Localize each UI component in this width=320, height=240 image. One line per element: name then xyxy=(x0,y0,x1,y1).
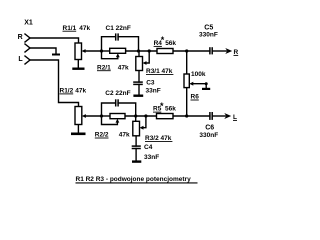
svg-text:R1/2: R1/2 xyxy=(60,87,74,94)
wire R1/2 bottom to ground xyxy=(77,125,79,133)
svg-text:R1 R2 R3 - podwojone potencjom: R1 R2 R3 - podwojone potencjometry xyxy=(76,176,192,183)
wiper arrow R1/1 xyxy=(82,49,86,53)
wire R3/2 top lead xyxy=(135,116,137,121)
capacitor C4 plates xyxy=(132,145,141,147)
junction node R5/R6/C6 xyxy=(185,114,188,117)
wire C5 to output arrow xyxy=(212,50,226,52)
potentiometer R1/2 body xyxy=(75,107,82,125)
wire R3/1 wiper return xyxy=(146,51,149,63)
wire C1 right branch xyxy=(118,37,138,51)
capacitor C3 plates xyxy=(133,81,143,83)
potentiometer R6 body xyxy=(184,74,189,88)
wire R6 top lead xyxy=(186,51,188,74)
junction node C2/R3/2 xyxy=(134,114,137,117)
wiper arrow R3/2 xyxy=(140,126,144,130)
potentiometer R2/1 body xyxy=(110,48,126,53)
wire R3/2 bottom to C4 xyxy=(135,136,137,146)
wire R2/1 right to R4 xyxy=(126,50,157,52)
wire L input to R1/2 top xyxy=(30,60,79,107)
wire C4 to ground xyxy=(135,149,137,161)
junction node R1/2 wiper xyxy=(100,114,103,117)
wire R3/1 bottom to C3 xyxy=(138,71,140,83)
svg-text:56k: 56k xyxy=(165,40,176,47)
capacitor C1 plates xyxy=(115,33,117,40)
svg-text:*: * xyxy=(161,35,165,45)
connector X1 pin R chevron xyxy=(25,34,30,42)
ground R1/2 xyxy=(71,133,86,136)
wire node to R2/1 left xyxy=(102,50,110,52)
wire R2/1 wiper return xyxy=(102,51,118,59)
wire R3/1 top lead xyxy=(138,51,140,57)
wire R4 to C5 xyxy=(173,50,210,52)
svg-text:L: L xyxy=(18,56,23,63)
svg-text:C1 22nF: C1 22nF xyxy=(106,25,131,32)
ground R1/1 xyxy=(72,68,84,70)
wiper arrow R2/2 xyxy=(116,119,120,123)
wire R2/2 right to R5 xyxy=(125,115,157,117)
junction node R3/2 wiper xyxy=(144,114,147,117)
junction node C1/R3/1 xyxy=(137,49,140,52)
svg-text:L: L xyxy=(233,114,237,121)
wiper arrow R2/1 xyxy=(116,53,120,57)
svg-text:C2 22nF: C2 22nF xyxy=(105,90,130,97)
wire R5 to C6 xyxy=(173,115,210,117)
svg-text:R3/1 47k: R3/1 47k xyxy=(146,68,173,75)
svg-text:R6: R6 xyxy=(191,94,200,101)
wire R6 wiper to ground xyxy=(193,84,206,88)
ground C3 xyxy=(133,95,143,97)
svg-text:R: R xyxy=(18,34,23,41)
ground middle pin xyxy=(52,54,60,56)
junction node R3/1 wiper xyxy=(148,49,151,52)
resistor R4 body xyxy=(157,49,173,54)
svg-text:*: * xyxy=(160,101,164,111)
potentiometer R3/2 body xyxy=(133,121,140,136)
wire C1 left branch xyxy=(102,37,116,51)
junction node R6 wiper ground xyxy=(205,82,208,85)
wire C2 left branch xyxy=(102,103,116,116)
ground C4 xyxy=(132,160,141,162)
wire R1/1 wiper to node xyxy=(85,50,102,52)
svg-text:330nF: 330nF xyxy=(199,31,218,38)
connector X1 pin L chevron xyxy=(25,56,30,64)
potentiometer R1/1 body xyxy=(75,43,82,60)
svg-text:C5: C5 xyxy=(204,24,213,31)
capacitor C6 plates xyxy=(209,112,211,120)
capacitor C2 plates xyxy=(115,99,117,106)
svg-text:47k: 47k xyxy=(75,87,86,94)
svg-text:33nF: 33nF xyxy=(146,88,161,95)
svg-text:C3: C3 xyxy=(146,79,155,86)
svg-text:47k: 47k xyxy=(119,132,130,139)
connector X1 middle (ground) pin chevron xyxy=(25,44,30,52)
svg-text:X1: X1 xyxy=(24,20,33,27)
junction node R4/R6/C5 xyxy=(185,49,188,52)
potentiometer R3/1 body xyxy=(136,57,143,71)
junction node R1/1 wiper xyxy=(100,49,103,52)
ground R6 wiper xyxy=(202,88,210,90)
wire C2 right branch xyxy=(118,103,136,116)
svg-text:C4: C4 xyxy=(144,144,153,151)
output arrowhead R xyxy=(225,48,232,54)
wiper arrow R3/1 xyxy=(143,61,147,65)
wire R1/2 wiper to node xyxy=(85,115,101,117)
potentiometer R2/2 body xyxy=(110,114,125,119)
wiper arrow R6 xyxy=(189,82,193,86)
wire C3 to ground xyxy=(138,84,140,94)
svg-text:47k: 47k xyxy=(79,25,90,32)
wire R input to R1/1 top xyxy=(30,38,79,43)
wire R1/1 bottom to ground xyxy=(77,60,79,68)
svg-text:47k: 47k xyxy=(118,64,129,71)
svg-text:56k: 56k xyxy=(165,106,176,113)
wire R3/2 wiper return xyxy=(143,116,146,128)
wiper arrow R1/2 xyxy=(82,114,86,118)
svg-text:100k: 100k xyxy=(191,71,206,78)
resistor R5 body xyxy=(157,114,174,119)
capacitor C5 plates xyxy=(209,47,211,54)
wire R6 bottom to L line xyxy=(186,88,188,116)
wire middle pin to ground xyxy=(30,48,56,54)
wire C6 to output arrow xyxy=(212,115,225,117)
output arrowhead L xyxy=(224,113,231,119)
wire node to R2/2 left xyxy=(102,115,111,117)
wire R2/2 wiper return xyxy=(102,116,118,125)
svg-text:33nF: 33nF xyxy=(144,154,159,161)
svg-text:C6: C6 xyxy=(205,125,214,132)
svg-text:330nF: 330nF xyxy=(199,132,218,139)
